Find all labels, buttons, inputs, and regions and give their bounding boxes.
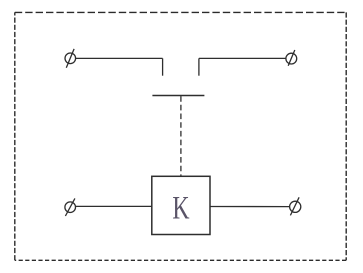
svg-text:K: K [172, 190, 189, 227]
